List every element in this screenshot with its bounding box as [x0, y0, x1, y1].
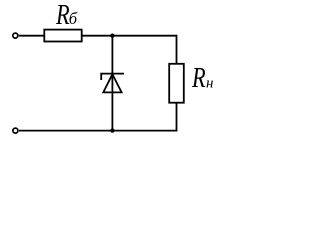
svg-text:R: R	[191, 63, 206, 94]
svg-text:н: н	[206, 75, 213, 91]
svg-text:б: б	[69, 9, 78, 28]
